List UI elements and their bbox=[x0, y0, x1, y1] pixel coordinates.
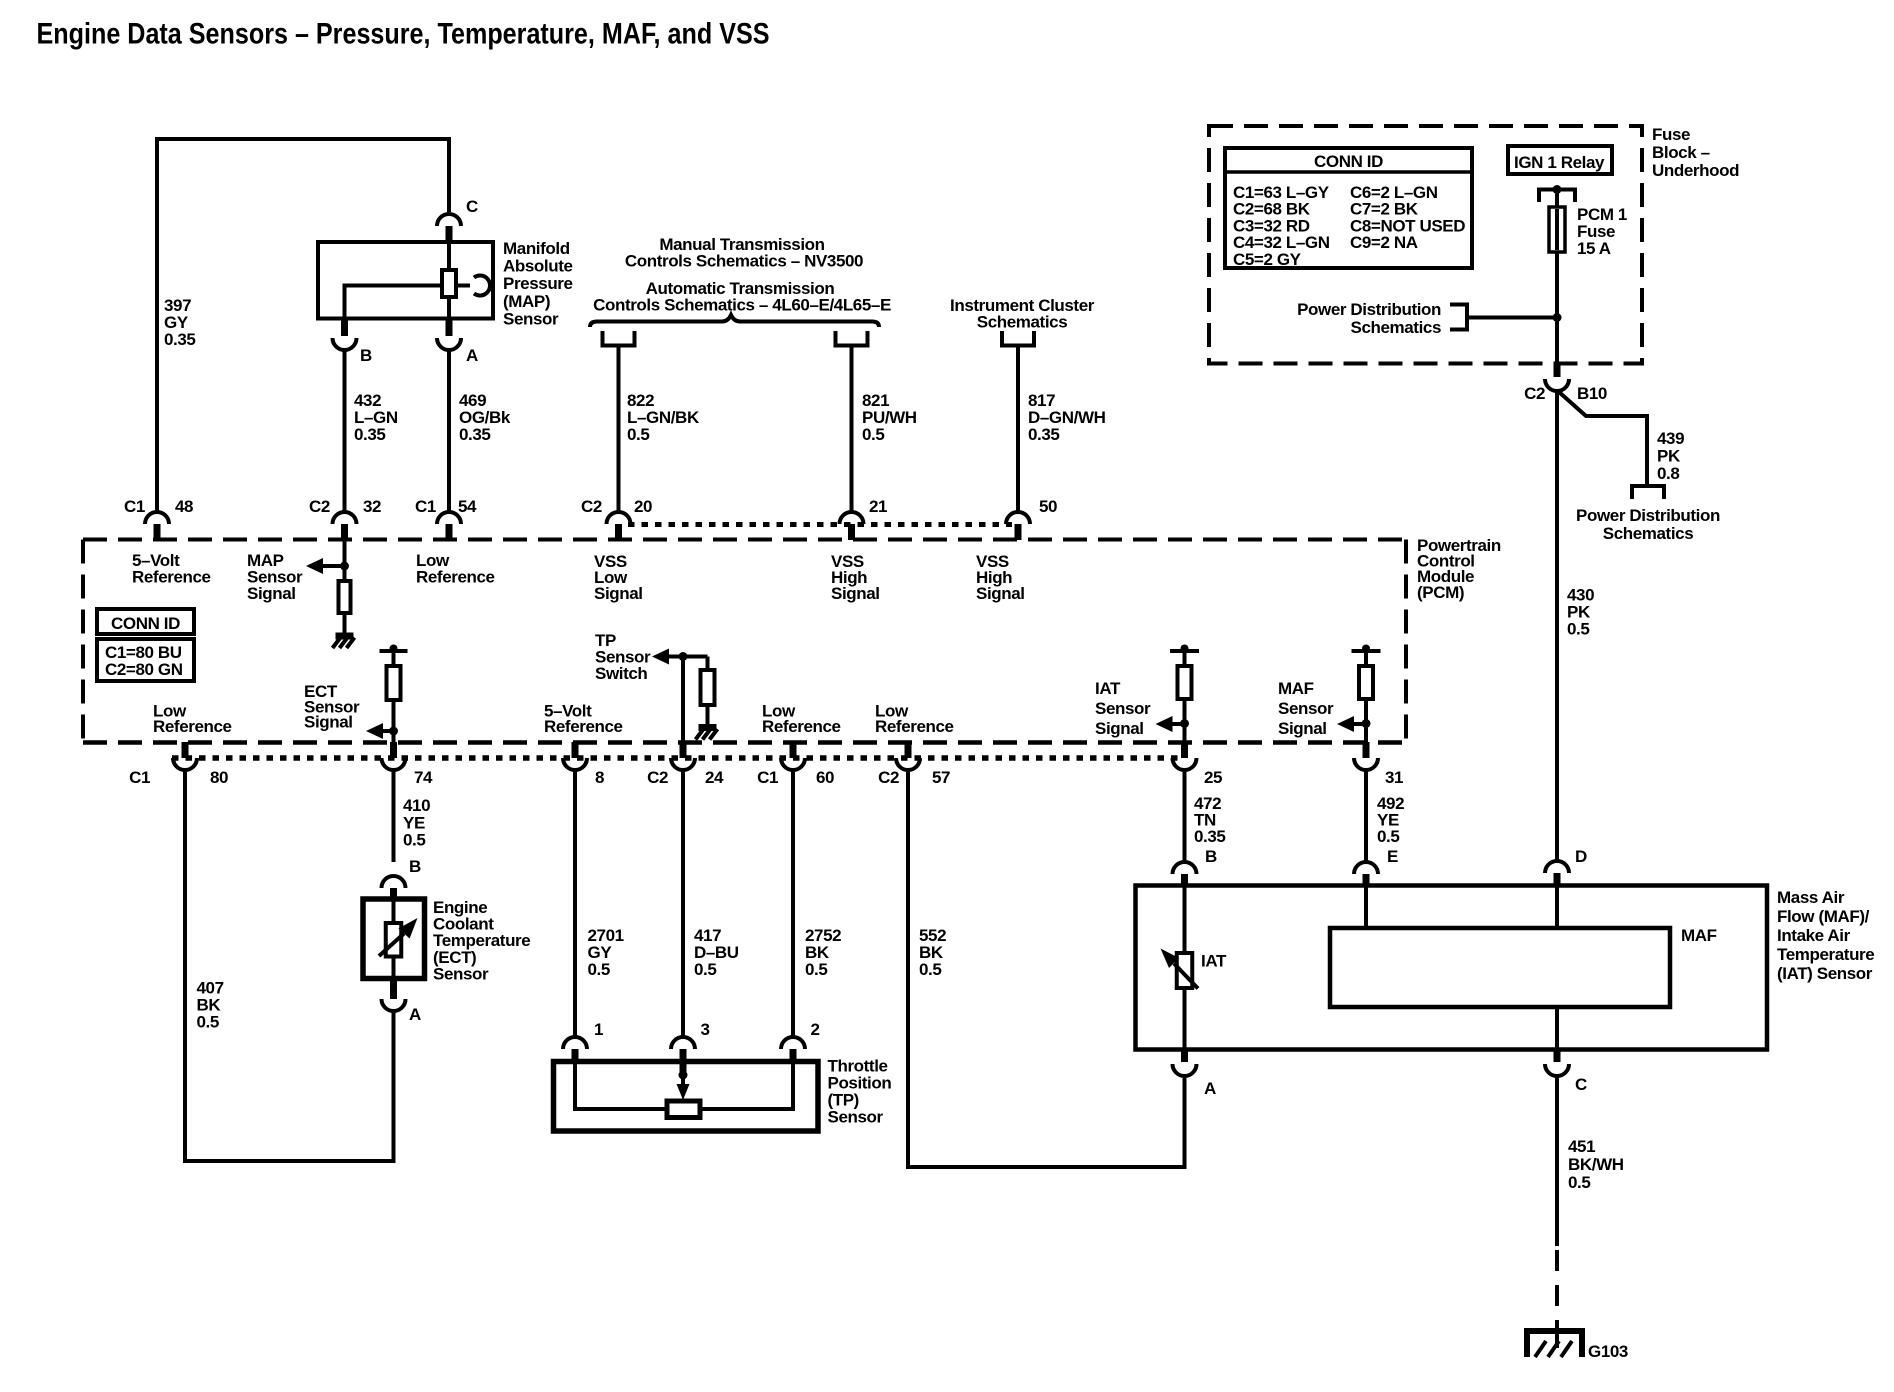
ECT pull-up terminal bbox=[380, 649, 408, 653]
svg-text:C2: C2 bbox=[647, 768, 668, 787]
IAT thermistor arrow bbox=[1174, 964, 1198, 989]
svg-text:Temperature: Temperature bbox=[1777, 945, 1874, 964]
svg-text:0.5: 0.5 bbox=[627, 425, 649, 444]
svg-text:Underhood: Underhood bbox=[1652, 161, 1739, 180]
TP wiper arrow (down) bbox=[677, 1084, 690, 1100]
wire D into MAF bbox=[1555, 886, 1559, 929]
svg-text:21: 21 bbox=[869, 497, 887, 516]
wire 439 PK branch bbox=[1559, 392, 1647, 484]
svg-text:CONN ID: CONN ID bbox=[111, 614, 180, 633]
svg-text:Flow (MAF)/: Flow (MAF)/ bbox=[1777, 907, 1870, 926]
svg-text:31: 31 bbox=[1385, 768, 1403, 787]
svg-text:0.5: 0.5 bbox=[588, 960, 610, 979]
svg-text:0.5: 0.5 bbox=[862, 425, 884, 444]
svg-text:(PCM): (PCM) bbox=[1417, 583, 1464, 602]
svg-text:MAF: MAF bbox=[1681, 926, 1717, 945]
svg-text:0.5: 0.5 bbox=[403, 831, 425, 850]
svg-text:32: 32 bbox=[363, 497, 381, 516]
svg-text:0.35: 0.35 bbox=[459, 425, 491, 444]
svg-text:C2: C2 bbox=[581, 497, 602, 516]
ECT sensor box bbox=[363, 899, 425, 979]
svg-text:BK/WH: BK/WH bbox=[1568, 1155, 1624, 1174]
connector C (MAP) bbox=[437, 214, 461, 226]
svg-text:MAF: MAF bbox=[1278, 679, 1314, 698]
svg-text:0.5: 0.5 bbox=[1568, 1173, 1590, 1192]
svg-text:Reference: Reference bbox=[132, 568, 211, 587]
MAP signal resistor bbox=[339, 581, 351, 613]
svg-text:Signal: Signal bbox=[247, 584, 296, 603]
wire 552 BK bbox=[908, 768, 1185, 1167]
svg-text:0.35: 0.35 bbox=[1028, 425, 1060, 444]
wire 407 BK loop bbox=[185, 768, 394, 1161]
svg-text:Controls Schematics – 4L60–E/4: Controls Schematics – 4L60–E/4L65–E bbox=[593, 296, 891, 315]
svg-text:410: 410 bbox=[403, 796, 430, 815]
wire 492 YE bbox=[1364, 768, 1368, 862]
svg-text:0.8: 0.8 bbox=[1657, 464, 1679, 483]
connector A (MAP) bbox=[446, 318, 453, 336]
svg-text:Sensor: Sensor bbox=[433, 964, 489, 983]
svg-text:0.35: 0.35 bbox=[1194, 827, 1226, 846]
wire bbox=[392, 700, 396, 742]
ground (MAP signal) bbox=[336, 633, 354, 640]
wire 469 OG/Bk bbox=[447, 348, 451, 514]
wire 472 TN bbox=[1183, 768, 1187, 862]
svg-text:Sensor: Sensor bbox=[1278, 699, 1334, 718]
svg-text:54: 54 bbox=[458, 497, 477, 516]
wire C from MAF bbox=[1555, 1007, 1559, 1050]
wire 451 dashed to ground bbox=[1555, 1250, 1559, 1322]
PCM box (dashed) bbox=[83, 538, 1406, 542]
connector 8 (PCM bottom) bbox=[572, 742, 579, 758]
svg-text:Intake Air: Intake Air bbox=[1777, 926, 1851, 945]
connector A (ECT) bbox=[390, 979, 397, 1000]
ground G103 bbox=[1527, 1331, 1582, 1357]
fuse block CONN ID table bbox=[1225, 148, 1472, 268]
connector C (MAF) bbox=[1554, 1050, 1561, 1063]
IAT thermistor resistor bbox=[1177, 953, 1193, 988]
svg-text:C1: C1 bbox=[757, 768, 778, 787]
off-page bracket VSS high (auto) bbox=[836, 331, 868, 346]
wire 417 D-BU bbox=[681, 768, 685, 1037]
wire 2701 GY bbox=[573, 768, 577, 1037]
IAT pull-up resistor bbox=[1178, 666, 1192, 699]
connector 48 (PCM top) bbox=[145, 512, 169, 524]
svg-text:G103: G103 bbox=[1588, 1342, 1628, 1361]
relay output bracket bbox=[1539, 190, 1575, 203]
svg-text:Pressure: Pressure bbox=[503, 274, 573, 293]
svg-text:0.5: 0.5 bbox=[1567, 620, 1589, 639]
off-page bracket instrument cluster bbox=[1002, 331, 1034, 346]
svg-text:C1: C1 bbox=[124, 497, 145, 516]
svg-text:Sensor: Sensor bbox=[1095, 699, 1151, 718]
svg-text:B: B bbox=[409, 857, 421, 876]
IAT thermistor wire bbox=[1183, 886, 1187, 1050]
svg-text:Fuse: Fuse bbox=[1652, 125, 1690, 144]
junction bbox=[340, 562, 349, 571]
wire 822 L-GN/BK bbox=[617, 346, 621, 514]
ECT thermistor resistor bbox=[386, 923, 402, 957]
svg-text:Manifold: Manifold bbox=[503, 239, 570, 258]
ground (TP) bbox=[699, 724, 717, 731]
connector 2 (TP) bbox=[781, 1037, 805, 1049]
MAF pull-up terminal bbox=[1352, 649, 1381, 653]
MAF/IAT sensor box bbox=[1136, 886, 1768, 1050]
wire 2752 BK bbox=[791, 768, 795, 1037]
svg-text:Signal: Signal bbox=[1278, 719, 1327, 738]
svg-text:Controls Schematics – NV3500: Controls Schematics – NV3500 bbox=[625, 252, 863, 271]
svg-text:C2: C2 bbox=[878, 768, 899, 787]
svg-text:50: 50 bbox=[1039, 497, 1057, 516]
svg-text:Power Distribution: Power Distribution bbox=[1576, 506, 1720, 525]
MAP sensor box bbox=[318, 242, 493, 319]
svg-text:Mass Air: Mass Air bbox=[1777, 888, 1845, 907]
connector 3 (TP) bbox=[671, 1037, 695, 1049]
svg-text:57: 57 bbox=[932, 768, 950, 787]
MAP pressure port crescent bbox=[474, 276, 490, 296]
connector 21 (PCM top) bbox=[840, 512, 864, 524]
svg-text:0.5: 0.5 bbox=[197, 1013, 219, 1032]
MAF signal arrow bbox=[1337, 716, 1354, 732]
svg-text:Switch: Switch bbox=[595, 664, 647, 683]
svg-text:1: 1 bbox=[594, 1020, 603, 1039]
svg-text:(MAP): (MAP) bbox=[503, 292, 550, 311]
connector 74 (PCM bottom) bbox=[390, 742, 397, 758]
svg-text:Sensor: Sensor bbox=[828, 1108, 884, 1127]
brace bbox=[590, 315, 879, 327]
svg-text:C2=80 GN: C2=80 GN bbox=[105, 660, 183, 679]
connector 50 (PCM top) bbox=[1006, 512, 1030, 524]
off-page bracket VSS low bbox=[603, 331, 635, 346]
MAF inner box bbox=[1330, 928, 1670, 1007]
wire fuse down bbox=[1555, 252, 1559, 364]
svg-text:Engine Data Sensors – Pressure: Engine Data Sensors – Pressure, Temperat… bbox=[37, 18, 770, 51]
svg-text:B10: B10 bbox=[1577, 384, 1607, 403]
svg-text:0.5: 0.5 bbox=[694, 960, 716, 979]
wire 817 D-GN/WH bbox=[1016, 346, 1020, 514]
svg-text:Schematics: Schematics bbox=[977, 313, 1068, 332]
connector 24 (PCM bottom) bbox=[680, 742, 687, 758]
svg-text:A: A bbox=[409, 1005, 421, 1024]
svg-text:439: 439 bbox=[1657, 429, 1684, 448]
svg-text:48: 48 bbox=[175, 497, 193, 516]
svg-text:0.35: 0.35 bbox=[164, 330, 196, 349]
connector 20 (PCM top) bbox=[607, 512, 631, 524]
svg-text:C1: C1 bbox=[129, 768, 150, 787]
MAF pull-up resistor bbox=[1359, 666, 1373, 699]
svg-text:A: A bbox=[466, 346, 478, 365]
svg-text:D: D bbox=[1575, 847, 1587, 866]
dotted harness line (bottom) bbox=[172, 755, 1184, 761]
ECT thermistor arrow bbox=[379, 934, 404, 957]
svg-text:B: B bbox=[360, 346, 372, 365]
connector 54 (PCM top) bbox=[437, 512, 461, 524]
svg-text:451: 451 bbox=[1568, 1137, 1595, 1156]
Fuse Block box (dashed) bbox=[1209, 126, 1642, 364]
svg-text:Schematics: Schematics bbox=[1603, 524, 1694, 543]
svg-text:20: 20 bbox=[634, 497, 652, 516]
IAT signal arrow bbox=[1156, 716, 1173, 732]
wire 451 BK/WH bbox=[1555, 1074, 1559, 1246]
wire bbox=[706, 705, 710, 727]
svg-text:IAT: IAT bbox=[1095, 679, 1121, 698]
IGN 1 Relay box bbox=[1508, 146, 1612, 174]
ECT signal arrow bbox=[366, 723, 383, 739]
TP switch arrow bbox=[652, 649, 669, 665]
svg-text:Signal: Signal bbox=[976, 584, 1025, 603]
svg-text:Sensor: Sensor bbox=[503, 309, 559, 328]
wire relay to fuse bbox=[1555, 190, 1559, 208]
svg-text:Signal: Signal bbox=[1095, 719, 1144, 738]
junction bbox=[679, 1071, 688, 1080]
svg-text:80: 80 bbox=[210, 768, 228, 787]
wire inside ECT bbox=[392, 899, 396, 979]
svg-text:IAT: IAT bbox=[1201, 952, 1227, 971]
svg-text:C2: C2 bbox=[309, 497, 330, 516]
svg-text:E: E bbox=[1387, 847, 1398, 866]
svg-text:(IAT) Sensor: (IAT) Sensor bbox=[1777, 964, 1873, 983]
svg-text:Signal: Signal bbox=[304, 713, 353, 732]
dotted harness line (top) bbox=[628, 522, 1012, 527]
TP wiper wire bbox=[680, 1064, 687, 1072]
svg-text:Block –: Block – bbox=[1652, 143, 1710, 162]
svg-text:Signal: Signal bbox=[594, 584, 643, 603]
connector 80 (PCM bottom) bbox=[182, 742, 189, 758]
svg-text:25: 25 bbox=[1204, 768, 1222, 787]
svg-text:A: A bbox=[1204, 1079, 1216, 1098]
connector 1 (TP) bbox=[563, 1037, 587, 1049]
junction bbox=[1553, 313, 1562, 322]
PCM CONN ID table bbox=[97, 609, 194, 634]
wire inside MAP sensor bbox=[447, 241, 451, 318]
svg-text:C1: C1 bbox=[415, 497, 436, 516]
wire to junction bbox=[1467, 316, 1557, 320]
svg-text:IGN 1 Relay: IGN 1 Relay bbox=[1514, 153, 1605, 172]
svg-text:24: 24 bbox=[705, 768, 724, 787]
wire 397 GY loop bbox=[157, 139, 449, 514]
svg-text:Reference: Reference bbox=[762, 717, 841, 736]
svg-text:C5=2 GY: C5=2 GY bbox=[1233, 250, 1302, 269]
ECT pull-up resistor bbox=[387, 666, 401, 700]
connector 31 (PCM bottom) bbox=[1363, 742, 1370, 758]
svg-text:Reference: Reference bbox=[153, 717, 232, 736]
connector C2 B10 bbox=[1554, 364, 1561, 378]
svg-text:B: B bbox=[1205, 847, 1217, 866]
svg-text:2: 2 bbox=[811, 1020, 820, 1039]
svg-text:Power Distribution: Power Distribution bbox=[1297, 300, 1441, 319]
connector 60 (PCM bottom) bbox=[790, 742, 797, 758]
svg-text:Reference: Reference bbox=[416, 568, 495, 587]
svg-text:Signal: Signal bbox=[831, 584, 880, 603]
svg-text:Reference: Reference bbox=[544, 717, 623, 736]
connector 32 (PCM top) bbox=[333, 512, 357, 524]
off-page bracket power distribution bbox=[1632, 486, 1664, 499]
svg-text:74: 74 bbox=[414, 768, 433, 787]
wire bbox=[392, 651, 396, 666]
fuse PCM 1 15A bbox=[1549, 207, 1565, 252]
svg-text:CONN ID: CONN ID bbox=[1314, 152, 1383, 171]
connector 25 (PCM bottom) bbox=[1181, 742, 1188, 758]
power distribution bracket bbox=[1450, 305, 1467, 330]
junction bbox=[679, 652, 688, 661]
MAP signal wire bbox=[343, 540, 347, 581]
svg-text:Schematics: Schematics bbox=[1351, 318, 1442, 337]
connector B (MAP) bbox=[341, 318, 348, 336]
svg-text:Absolute: Absolute bbox=[503, 257, 573, 276]
TP pull-down wire bbox=[706, 657, 710, 671]
wire 432 L-GN bbox=[343, 348, 347, 514]
svg-text:0.35: 0.35 bbox=[354, 425, 386, 444]
svg-text:YE: YE bbox=[403, 813, 425, 832]
svg-text:15 A: 15 A bbox=[1577, 239, 1611, 258]
wire E into MAF bbox=[1364, 886, 1368, 929]
svg-text:PK: PK bbox=[1657, 447, 1681, 466]
wire 821 PU/WH bbox=[850, 346, 854, 514]
TP potentiometer track bbox=[575, 1064, 793, 1109]
svg-text:3: 3 bbox=[701, 1020, 710, 1039]
connector A (IAT) bbox=[1181, 1050, 1188, 1063]
connector 57 (PCM bottom) bbox=[905, 742, 912, 758]
svg-text:0.5: 0.5 bbox=[805, 960, 827, 979]
wire 430 PK bbox=[1555, 389, 1559, 862]
MAP transducer resistor bbox=[442, 270, 456, 297]
svg-text:Reference: Reference bbox=[875, 717, 954, 736]
svg-text:C9=2 NA: C9=2 NA bbox=[1350, 233, 1418, 252]
svg-text:C: C bbox=[1575, 1075, 1587, 1094]
MAP pressure port line bbox=[456, 284, 470, 288]
TP wiper element bbox=[667, 1101, 700, 1118]
svg-text:8: 8 bbox=[595, 768, 604, 787]
TP wire to pin 24 bbox=[681, 657, 685, 743]
junction bbox=[389, 727, 398, 736]
svg-text:C2: C2 bbox=[1524, 384, 1545, 403]
svg-text:60: 60 bbox=[816, 768, 834, 787]
wire to ground bbox=[343, 613, 347, 634]
TP sensor box bbox=[554, 1062, 819, 1132]
TP pull-down resistor bbox=[701, 670, 715, 705]
MAP signal arrow bbox=[306, 558, 323, 574]
svg-text:0.5: 0.5 bbox=[1377, 827, 1399, 846]
svg-text:C: C bbox=[466, 197, 478, 216]
IAT pull-up terminal bbox=[1170, 649, 1199, 653]
MAP internal branch wire bbox=[345, 286, 443, 319]
wire 410 YE bbox=[392, 768, 396, 862]
svg-text:0.5: 0.5 bbox=[919, 960, 941, 979]
